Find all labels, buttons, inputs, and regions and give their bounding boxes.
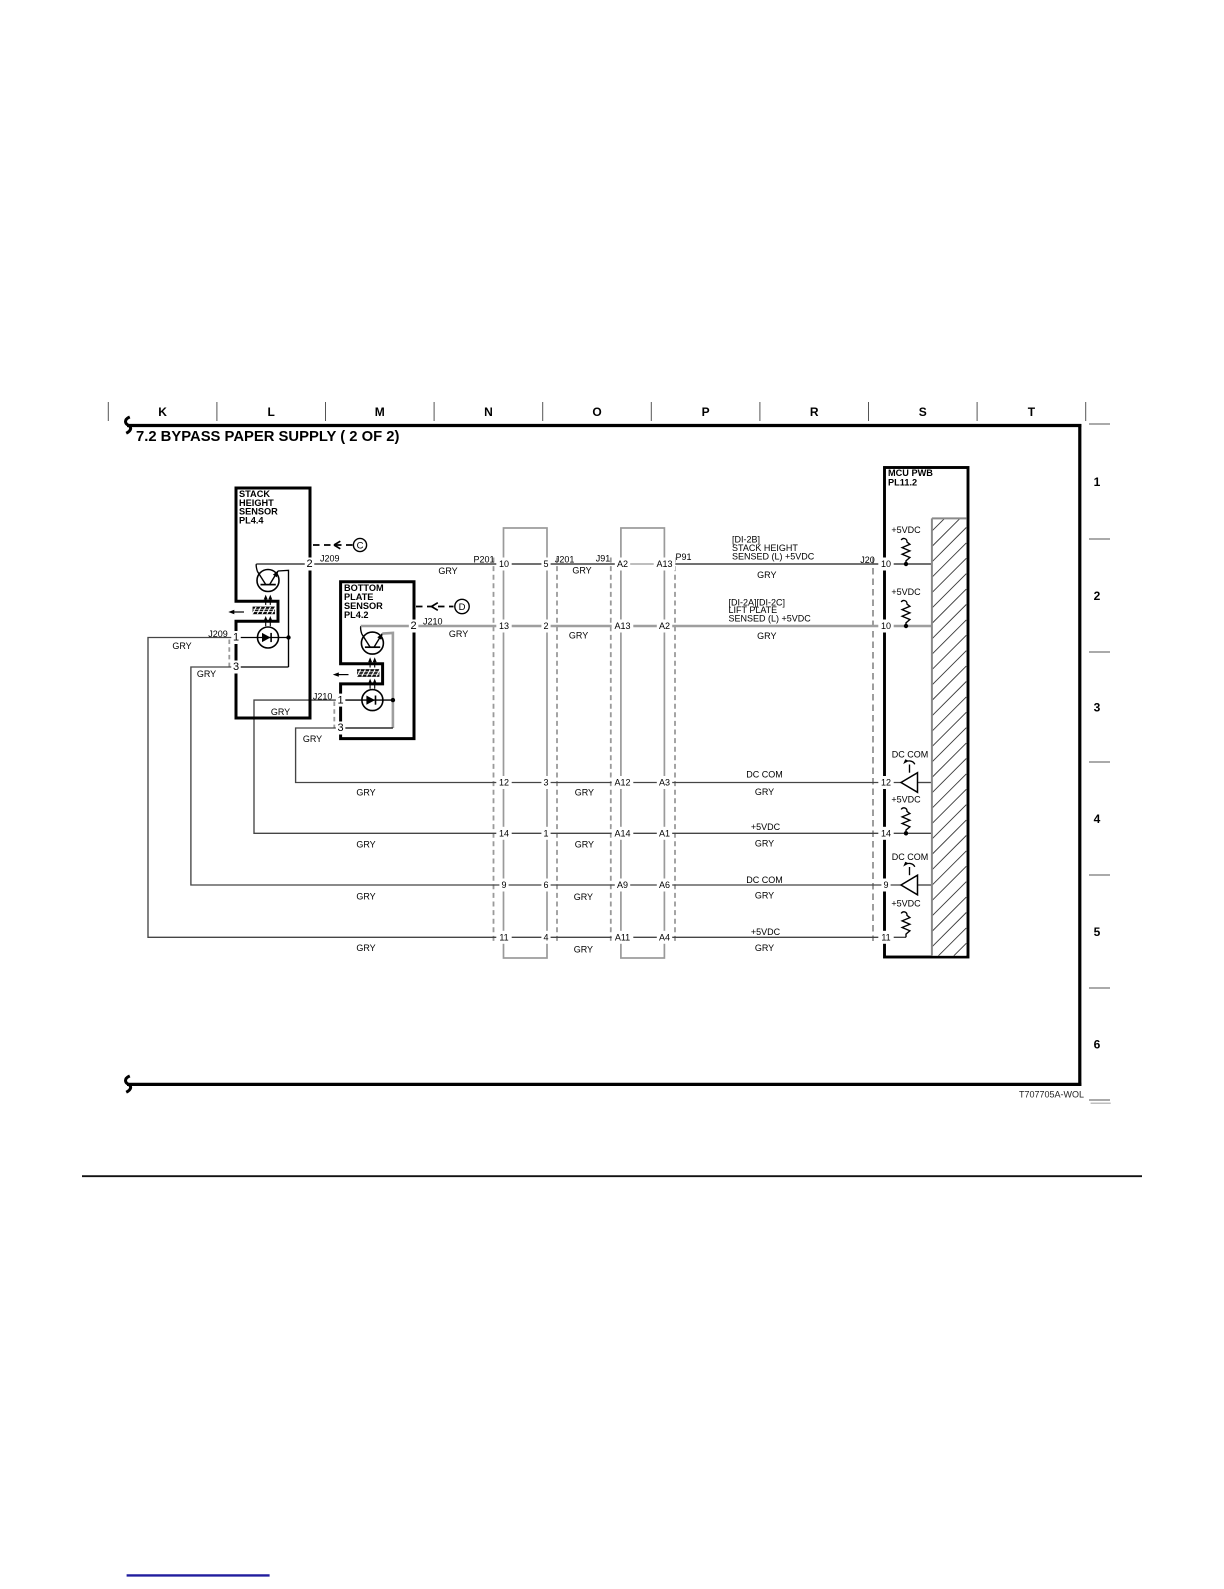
- column letters K-T: [158, 405, 1035, 419]
- svg-text:L: L: [268, 405, 275, 419]
- svg-text:GRY: GRY: [574, 944, 593, 954]
- svg-text:10: 10: [499, 559, 509, 569]
- wire pin2 inside stack sensor box: [256, 563, 312, 565]
- svg-text:GRY: GRY: [575, 840, 594, 850]
- wire J209 pin1 to row11 +5VDC: [148, 638, 675, 938]
- svg-text:3: 3: [543, 778, 548, 788]
- phototransistor Q stack height sensor: [257, 570, 279, 592]
- light direction arrow (bottom plate sensor): [333, 672, 349, 676]
- svg-text:GRY: GRY: [757, 570, 776, 580]
- wire pin3 inside bottom sensor: [341, 727, 393, 729]
- phototransistor Q bottom plate sensor: [361, 632, 383, 654]
- svg-text:A6: A6: [659, 880, 670, 890]
- svg-text:GRY: GRY: [572, 566, 591, 576]
- pin labels MCU J20: [878, 558, 893, 944]
- svg-text:DC COM: DC COM: [746, 770, 783, 780]
- svg-text:J209: J209: [208, 629, 228, 639]
- svg-text:+5VDC: +5VDC: [891, 795, 921, 805]
- svg-text:GRY: GRY: [575, 788, 594, 798]
- svg-text:7.2 BYPASS PAPER SUPPLY ( 2 OF: 7.2 BYPASS PAPER SUPPLY ( 2 OF 2): [136, 429, 399, 445]
- signal label DI-2B stack height sensed: [732, 535, 815, 562]
- svg-text:GRY: GRY: [449, 629, 468, 639]
- svg-text:D: D: [459, 602, 466, 613]
- svg-text:2: 2: [543, 621, 548, 631]
- svg-text:J210: J210: [313, 692, 333, 702]
- wire collector hook to pin 2 (stack sensor): [256, 564, 257, 571]
- frame break squiggle bottom-left: [126, 1076, 131, 1092]
- sensor box BOTTOM PLATE SENSOR PL4.2: [341, 582, 414, 739]
- connector dashed line J210: [333, 702, 335, 728]
- svg-text:2: 2: [411, 620, 417, 632]
- wire row9 right segment (dark): [675, 884, 901, 886]
- junction node bottom sensor: [391, 698, 395, 702]
- wire pin3 inside stack sensor: [236, 666, 289, 668]
- svg-text:O: O: [592, 405, 601, 419]
- svg-text:SENSED (L) +5VDC: SENSED (L) +5VDC: [729, 614, 812, 624]
- svg-text:A11: A11: [615, 933, 630, 943]
- svg-text:+5VDC: +5VDC: [891, 525, 921, 535]
- svg-text:GRY: GRY: [438, 566, 457, 576]
- resistor at MCU pin 10 row1 with +5VDC: [891, 525, 921, 566]
- bottom plate sensor label: [344, 583, 384, 620]
- wire row9 triangle to hatch: [918, 884, 933, 886]
- wire emitter to vertical (bottom sensor, gray): [382, 633, 393, 728]
- svg-text:J210: J210: [423, 617, 443, 627]
- svg-text:GRY: GRY: [303, 734, 322, 744]
- svg-text:11: 11: [499, 933, 508, 943]
- svg-text:PL11.2: PL11.2: [888, 478, 917, 488]
- light beam arrows lower pair (bottom sensor): [368, 679, 377, 689]
- svg-text:10: 10: [881, 559, 891, 569]
- MCU PWB hatched area: [932, 518, 966, 955]
- pin labels J91 side: [612, 558, 634, 944]
- svg-text:12: 12: [499, 778, 509, 788]
- DC COM return symbol at MCU pin 12: [892, 750, 929, 793]
- svg-text:12: 12: [881, 778, 891, 788]
- sensor pin labels J210: [336, 620, 419, 735]
- photo-interrupter hatch element (bottom plate sensor): [357, 670, 380, 677]
- stack height sensor label: [239, 489, 278, 526]
- svg-text:10: 10: [881, 621, 891, 631]
- svg-text:+5VDC: +5VDC: [891, 587, 921, 597]
- svg-text:5: 5: [543, 559, 548, 569]
- svg-text:3: 3: [1094, 700, 1101, 714]
- svg-text:MCU PWB: MCU PWB: [888, 468, 933, 478]
- svg-text:2: 2: [1094, 589, 1101, 603]
- connector dashed line J91: [610, 558, 612, 942]
- svg-text:A14: A14: [614, 829, 630, 839]
- svg-text:T: T: [1028, 405, 1036, 419]
- svg-text:K: K: [158, 405, 167, 419]
- svg-text:3: 3: [233, 661, 239, 673]
- row numbers 1-6: [1094, 475, 1101, 1052]
- frame right line: [1078, 424, 1081, 1086]
- svg-text:4: 4: [543, 933, 548, 943]
- svg-text:M: M: [375, 405, 385, 419]
- svg-text:6: 6: [543, 880, 548, 890]
- wire J209 pin3 to row9 DC COM: [191, 667, 675, 885]
- pin labels P201 side: [496, 558, 511, 944]
- wire J210 pin3 to row12 DC COM: [296, 728, 675, 783]
- svg-text:GRY: GRY: [574, 892, 593, 902]
- connector dashed line J20: [872, 558, 874, 942]
- MCU PWB label: [888, 468, 933, 488]
- cable bundle rectangle P201/J201: [504, 528, 548, 958]
- pin labels P91 side: [654, 558, 676, 944]
- light beam arrows upper pair (stack sensor): [264, 595, 273, 605]
- connector dashed line J209: [228, 640, 230, 667]
- svg-text:SENSED (L) +5VDC: SENSED (L) +5VDC: [732, 551, 815, 561]
- svg-text:1: 1: [233, 632, 239, 644]
- svg-text:J201: J201: [555, 554, 575, 564]
- svg-text:DC COM: DC COM: [746, 875, 783, 885]
- svg-text:2: 2: [306, 558, 312, 570]
- svg-text:A13: A13: [614, 621, 630, 631]
- wire row2 J210 pin2 to MCU J20-10 (gray): [415, 625, 932, 628]
- svg-text:DC COM: DC COM: [892, 852, 929, 862]
- svg-text:S: S: [919, 405, 927, 419]
- wire row14 right segment (dark): [675, 832, 932, 834]
- svg-text:GRY: GRY: [755, 943, 774, 953]
- svg-text:14: 14: [499, 829, 509, 839]
- frame break squiggle top-left: [126, 417, 131, 433]
- LED photo diode bottom plate sensor: [341, 690, 393, 711]
- svg-text:A12: A12: [614, 778, 630, 788]
- svg-text:P: P: [702, 405, 710, 419]
- svg-text:+5VDC: +5VDC: [751, 927, 781, 937]
- svg-text:PL4.4: PL4.4: [239, 516, 264, 526]
- connector dashed line P91: [674, 558, 676, 942]
- svg-text:GRY: GRY: [172, 641, 191, 651]
- pin labels J201 side: [541, 558, 550, 944]
- connector dashed line J201: [556, 558, 558, 942]
- svg-text:4: 4: [1094, 812, 1101, 826]
- svg-text:13: 13: [499, 621, 509, 631]
- svg-text:A9: A9: [617, 880, 628, 890]
- hyperlink underline bottom left: [127, 1574, 270, 1576]
- LED photo diode stack height sensor: [236, 627, 289, 648]
- wire row12 right segment (dark): [675, 782, 901, 784]
- wire row1 light segment A2-A13: [629, 563, 658, 565]
- svg-text:5: 5: [1094, 925, 1101, 939]
- junction node stack sensor: [286, 635, 290, 639]
- small gray mark under drawing number: [1091, 1102, 1111, 1104]
- wire emitter to vertical (stack sensor): [278, 570, 289, 667]
- MCU PWB board box PL11.2: [885, 468, 969, 958]
- sensor pin labels J209: [231, 558, 314, 674]
- light beam arrows lower pair (stack sensor): [264, 616, 273, 626]
- wire pin2 inside bottom sensor box (gray): [361, 625, 415, 628]
- svg-text:N: N: [484, 405, 493, 419]
- svg-text:A1: A1: [659, 829, 670, 839]
- svg-text:GRY: GRY: [755, 891, 774, 901]
- svg-text:A2: A2: [617, 559, 628, 569]
- wire row12 triangle to hatch: [918, 782, 933, 784]
- sensor box STACK HEIGHT SENSOR PL4.4: [236, 488, 310, 718]
- svg-text:J91: J91: [596, 554, 611, 564]
- svg-text:+5VDC: +5VDC: [891, 899, 921, 909]
- svg-text:A4: A4: [659, 933, 670, 943]
- svg-text:A2: A2: [659, 621, 670, 631]
- resistor at MCU pin 14 with +5VDC: [891, 795, 921, 836]
- callout arrow C from stack sensor: [313, 538, 367, 551]
- svg-text:PL4.2: PL4.2: [344, 610, 369, 620]
- svg-text:GRY: GRY: [356, 891, 375, 901]
- svg-text:+5VDC: +5VDC: [751, 822, 781, 832]
- svg-text:GRY: GRY: [755, 787, 774, 797]
- cable bundle rectangle J91/P91: [621, 528, 665, 958]
- DC COM return symbol at MCU pin 9: [892, 852, 929, 895]
- row ticks right side: [1089, 424, 1110, 1100]
- svg-text:R: R: [810, 405, 819, 419]
- svg-text:P201: P201: [473, 554, 494, 564]
- svg-text:9: 9: [883, 880, 888, 890]
- connector dashed line P201: [493, 558, 495, 942]
- svg-text:J209: J209: [320, 553, 340, 563]
- frame top line: [127, 424, 1081, 427]
- svg-text:GRY: GRY: [271, 707, 290, 717]
- svg-text:1: 1: [543, 829, 548, 839]
- callout arrow D from bottom plate sensor: [416, 599, 469, 613]
- frame bottom line: [127, 1083, 1081, 1086]
- wire collector hook to pin 2 (bottom sensor): [361, 626, 362, 634]
- photo-interrupter hatch element (stack height sensor): [253, 607, 276, 614]
- footer horizontal rule: [82, 1175, 1142, 1177]
- svg-text:GRY: GRY: [356, 788, 375, 798]
- svg-text:6: 6: [1094, 1037, 1101, 1051]
- svg-text:A13: A13: [656, 559, 672, 569]
- wire row11 right segment to resistor (dark): [675, 936, 906, 938]
- light direction arrow (stack height sensor): [228, 610, 244, 614]
- resistor at MCU pin 11 with +5VDC: [891, 899, 921, 938]
- svg-text:GRY: GRY: [356, 943, 375, 953]
- resistor at MCU pin 10 row2 with +5VDC: [891, 587, 921, 628]
- svg-text:C: C: [357, 541, 364, 552]
- wire row1 J209 pin2 to MCU J20-10 (dark): [312, 563, 932, 565]
- svg-text:DC COM: DC COM: [892, 750, 929, 760]
- svg-text:GRY: GRY: [356, 840, 375, 850]
- svg-text:GRY: GRY: [757, 631, 776, 641]
- svg-text:1: 1: [338, 694, 344, 706]
- svg-text:T707705A-WOL: T707705A-WOL: [1019, 1090, 1084, 1100]
- svg-text:GRY: GRY: [197, 669, 216, 679]
- svg-text:GRY: GRY: [569, 630, 588, 640]
- svg-text:14: 14: [881, 829, 891, 839]
- svg-text:A3: A3: [659, 778, 670, 788]
- svg-text:3: 3: [338, 722, 344, 734]
- svg-text:9: 9: [501, 880, 506, 890]
- wire J210 pin1 to row14 +5VDC: [254, 700, 675, 833]
- svg-text:P91: P91: [675, 552, 691, 562]
- svg-text:11: 11: [881, 933, 890, 943]
- svg-text:1: 1: [1094, 475, 1101, 489]
- wire color labels GRY: [172, 566, 776, 955]
- svg-text:GRY: GRY: [755, 839, 774, 849]
- light beam arrows upper pair (bottom sensor): [368, 657, 377, 667]
- signal label DI-2A DI-2C lift plate sensed: [729, 597, 812, 623]
- svg-text:J20: J20: [860, 555, 875, 565]
- border frame decoration: column ticks: [108, 402, 1085, 421]
